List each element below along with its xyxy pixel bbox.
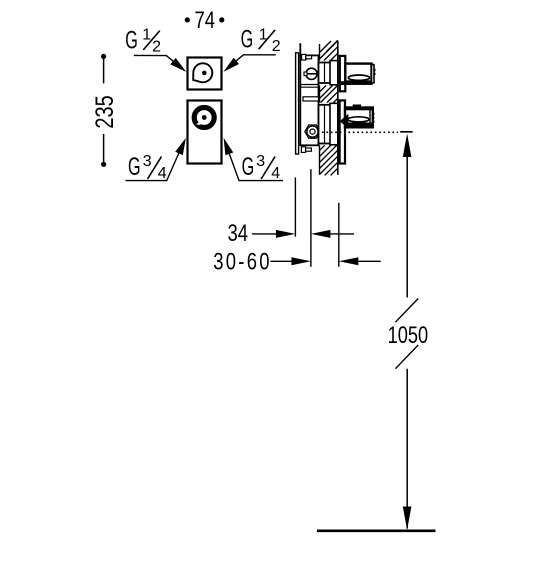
label G3/4 left [128, 153, 167, 182]
bottom ring inner notch [196, 121, 200, 125]
top handle outline [345, 64, 371, 84]
label G1/2 left [125, 26, 161, 55]
top sleeve through wall [319, 63, 338, 84]
bottom rectangle body (front view) [188, 101, 222, 164]
top handle end nubs [374, 69, 376, 71]
dim 74 left dot [185, 17, 190, 22]
svg-text:4: 4 [158, 165, 167, 182]
slotted screw tab [304, 72, 307, 76]
svg-text:30-60: 30-60 [213, 248, 271, 275]
svg-text:34: 34 [228, 220, 249, 247]
extension line C [338, 203, 340, 267]
break slash upper [395, 299, 418, 323]
extension line A [294, 177, 296, 236]
hex plug [305, 125, 320, 138]
svg-text:3: 3 [143, 153, 152, 170]
dim 1050 upper shaft [406, 140, 408, 298]
dim 34 right tail [322, 233, 354, 235]
label G1/2 right [241, 26, 281, 55]
dim 235 line upper segment [103, 56, 105, 83]
svg-text:G: G [125, 27, 138, 54]
top circle center dot [202, 71, 207, 76]
wall hatch block bottom [320, 145, 338, 175]
lower collar at wall face [330, 103, 338, 145]
svg-text:235: 235 [91, 95, 119, 128]
top sleeve inner line [324, 63, 326, 84]
lower sleeve through wall [319, 105, 338, 144]
svg-text:3: 3 [256, 153, 265, 170]
antenna line top [299, 43, 301, 55]
lower sleeve inner line [324, 105, 326, 144]
leader G3/4 right [229, 152, 284, 181]
wall back line (left) segments [319, 44, 321, 175]
svg-text:G: G [241, 26, 254, 53]
wall face line (right) segments [337, 41, 339, 175]
top handle lens [348, 75, 369, 80]
dim 235 top dot [101, 54, 106, 59]
leader G3/4 left [126, 151, 181, 181]
top tick bar [400, 131, 412, 133]
dim 1050 lower shaft [406, 369, 408, 529]
dim 1050 up arrow [403, 134, 412, 158]
leader G1/2 right [230, 55, 276, 66]
extension line B [310, 169, 312, 267]
bottom screw head [301, 147, 305, 153]
break slash lower [395, 345, 418, 369]
svg-text:1: 1 [142, 26, 151, 43]
dim 74 right dot [219, 17, 224, 22]
lower handle outline [345, 108, 373, 128]
mounting plate (front thin plate) [296, 53, 299, 154]
svg-text:4: 4 [271, 165, 280, 182]
svg-text:G: G [128, 154, 141, 181]
top handle left lug [339, 81, 348, 85]
hex plug circle [307, 126, 318, 137]
lower handle lens [348, 117, 369, 122]
label G3/4 right [242, 153, 281, 182]
dim 235 bottom dot [101, 162, 106, 167]
dim 30-60 left line [271, 260, 300, 262]
lower handle top bump [353, 105, 361, 108]
svg-text:2: 2 [272, 38, 281, 55]
top flange (escutcheon) [340, 56, 346, 91]
lower flange (escutcheon) [340, 100, 345, 163]
svg-text:G: G [242, 154, 255, 181]
bottom thick ring [194, 108, 214, 128]
wall hatch block middle [320, 86, 338, 103]
arrowhead G3/4 left [175, 138, 186, 155]
top handle bottom band [345, 80, 371, 84]
valve body outline [300, 55, 318, 145]
dim 34 right arrow [276, 230, 296, 238]
slotted screw circle [306, 68, 317, 79]
leader G1/2 left [134, 55, 180, 66]
wall hatch block top [320, 40, 338, 60]
top square body (front view) [188, 58, 222, 90]
dim 1050 down arrow [403, 507, 412, 531]
svg-text:2: 2 [152, 38, 161, 55]
dim 34 left line [252, 233, 284, 235]
arrowhead G3/4 right [224, 138, 234, 155]
bottom circle center dot [202, 115, 207, 120]
lower handle end nubs [373, 113, 375, 115]
arrowhead G1/2 right [223, 58, 239, 72]
dim 30-60 right tail [350, 260, 381, 262]
lower handle top band [345, 108, 373, 111]
slotted screw slot [305, 73, 317, 75]
dotted reference line [322, 131, 398, 133]
body internal line mid 1 [300, 86, 318, 88]
floor line [317, 529, 436, 532]
dim 34 counter arrow [311, 230, 331, 238]
hex plug inner circle [310, 129, 315, 134]
lower handle bottom band [345, 123, 373, 128]
top screw shaft [306, 56, 312, 59]
dim 30-60 right arrow to B [291, 257, 311, 265]
dim 30-60 counter arrow at C [339, 257, 359, 265]
top collar at wall face [330, 61, 338, 85]
body divider bar [303, 97, 319, 101]
top handle end cap [372, 65, 375, 83]
lower handle left wedge [340, 114, 349, 129]
arrowhead G1/2 left [170, 58, 186, 72]
top screw head [302, 54, 306, 60]
top cartridge circle (teardrop cam) [193, 63, 212, 82]
svg-text:74: 74 [195, 7, 216, 34]
lower handle end cap [370, 109, 373, 127]
bottom screw shaft [306, 148, 312, 151]
body internal line upper chamber bottom [300, 84, 318, 86]
dim 235 line lower segment [103, 134, 105, 164]
svg-text:1050: 1050 [388, 321, 429, 348]
